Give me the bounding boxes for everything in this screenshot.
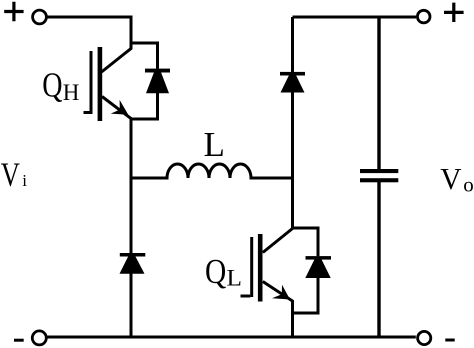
svg-text:H: H xyxy=(63,80,80,105)
svg-text:i: i xyxy=(22,171,27,190)
svg-text:V: V xyxy=(440,162,461,197)
svg-text:V: V xyxy=(1,155,20,193)
svg-text:Q: Q xyxy=(42,65,62,104)
svg-text:L: L xyxy=(227,266,242,292)
svg-text:L: L xyxy=(204,125,225,164)
svg-text:o: o xyxy=(463,173,474,197)
svg-text:Q: Q xyxy=(205,252,226,291)
